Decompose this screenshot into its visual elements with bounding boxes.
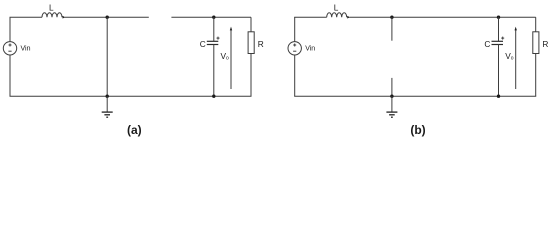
node (390, 16, 393, 19)
node (106, 16, 109, 19)
wire (213, 17, 215, 41)
node Vo (output arrow) (230, 27, 232, 89)
wire (213, 45, 215, 97)
wire (switch open, upper stub) (391, 17, 393, 41)
voltage source Vin (288, 42, 301, 55)
wire (switch open) (171, 16, 251, 18)
label Vin (21, 46, 31, 53)
svg-text:(a): (a) (127, 123, 142, 137)
wire (9, 55, 11, 96)
resistor R (248, 32, 254, 54)
svg-text:Vo: Vo (221, 51, 230, 62)
label (b) (410, 123, 425, 137)
capacitor C (207, 37, 220, 45)
wire (498, 17, 500, 41)
svg-text:Vin: Vin (21, 46, 31, 53)
inductor L (327, 13, 351, 19)
svg-text:Vo: Vo (505, 51, 514, 62)
wire (294, 16, 327, 18)
wire (65, 16, 149, 18)
svg-text:R: R (258, 39, 264, 49)
label Vin (305, 46, 315, 53)
wire (498, 45, 500, 97)
node (212, 16, 215, 19)
svg-text:C: C (484, 39, 490, 49)
wire (250, 17, 252, 32)
label C (200, 39, 206, 49)
wire (294, 95, 536, 97)
node (106, 95, 109, 98)
ground (102, 96, 113, 117)
wire (350, 16, 536, 18)
svg-text:Vin: Vin (305, 46, 315, 53)
label Vo (505, 51, 514, 62)
wire (294, 55, 296, 96)
svg-text:R: R (542, 39, 548, 49)
label Vo (221, 51, 230, 62)
capacitor C (492, 37, 505, 45)
label L (49, 2, 54, 12)
node (212, 95, 215, 98)
svg-text:L: L (49, 2, 54, 12)
svg-text:(b): (b) (410, 123, 425, 137)
node (497, 95, 500, 98)
node Vo (output arrow) (515, 27, 517, 89)
label C (484, 39, 490, 49)
wire (10, 16, 43, 18)
label L (334, 2, 339, 12)
resistor R (533, 32, 539, 54)
label R (542, 39, 548, 49)
wire (294, 17, 296, 42)
inductor L (42, 13, 66, 19)
node (497, 16, 500, 19)
wire (switch open, lower stub) (391, 78, 393, 96)
wire (250, 54, 252, 97)
svg-text:C: C (200, 39, 206, 49)
ground (386, 96, 397, 117)
wire (switch closed) (106, 17, 108, 96)
wire (535, 54, 537, 97)
svg-text:L: L (334, 2, 339, 12)
wire (535, 17, 537, 32)
label R (258, 39, 264, 49)
wire (9, 17, 11, 42)
voltage source Vin (3, 42, 16, 55)
node (390, 95, 393, 98)
wire (10, 95, 252, 97)
label (a) (127, 123, 142, 137)
